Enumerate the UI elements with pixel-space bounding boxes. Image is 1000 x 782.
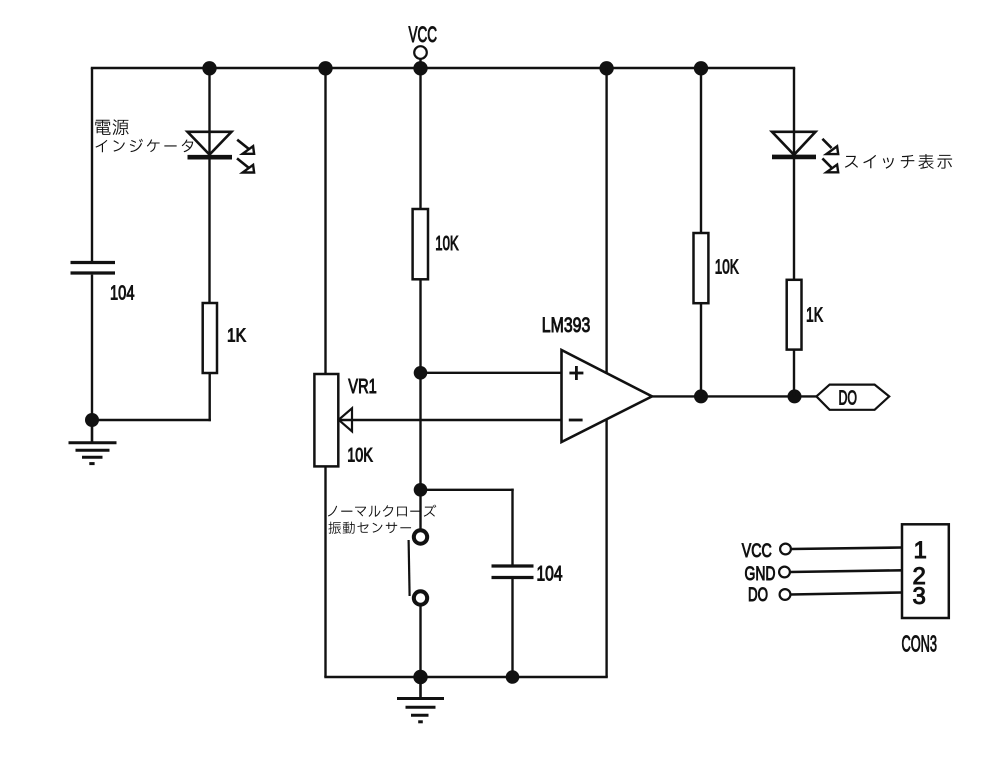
pin DO open terminal	[780, 589, 791, 600]
junction output / right 1K	[788, 389, 802, 403]
net flag DO	[816, 385, 889, 410]
junction left ground node	[85, 413, 99, 427]
svg-text:LM393: LM393	[542, 314, 591, 337]
wire right 10K branch	[700, 68, 702, 396]
wire C2 to ground rail	[511, 579, 513, 677]
LED D1 power indicator	[188, 132, 233, 157]
wire ground node to R2 bottom	[92, 373, 211, 421]
resistor R5 1K (LED2)	[787, 280, 802, 350]
resistor R4 10K (pull-up)	[694, 233, 709, 303]
svg-text:DO: DO	[748, 585, 768, 606]
junction output / right 10K	[694, 389, 708, 403]
svg-text:10K: 10K	[435, 232, 459, 255]
capacitor C1	[71, 263, 116, 274]
VR1 wiper arrow and wire to minus input	[339, 408, 562, 431]
svg-text:VR1: VR1	[348, 375, 377, 398]
junction ground rail / sensor	[413, 670, 427, 684]
LED D1 light arrow 2	[237, 158, 254, 172]
svg-text:CON3: CON3	[902, 631, 938, 657]
junction top rail / VR1 branch	[318, 61, 332, 75]
op-amp U1 LM393	[562, 350, 653, 442]
capacitor C2	[492, 566, 534, 578]
wire GND to pin 2	[790, 570, 902, 572]
power symbol VCC	[409, 22, 438, 68]
wire right LED branch	[793, 68, 795, 396]
wire VCC to pin 1	[791, 548, 902, 550]
label ノーマルクローズ (normally closed)	[328, 505, 436, 517]
wire bottom ground rail	[324, 676, 608, 678]
potentiometer VR1 body	[314, 374, 338, 466]
wire LED D1 branch	[208, 68, 210, 303]
junction top rail / comparator supply branch	[599, 61, 613, 75]
svg-text:VCC: VCC	[409, 22, 438, 47]
svg-text:3: 3	[913, 583, 926, 610]
vibration sensor SW1 spring contact	[409, 540, 410, 596]
svg-text:1K: 1K	[806, 304, 823, 327]
svg-text:104: 104	[537, 563, 563, 586]
junction top rail / left LED branch	[202, 61, 216, 75]
svg-text:1K: 1K	[227, 325, 247, 346]
vibration sensor SW1 top contact	[414, 530, 427, 543]
pin VCC open terminal	[780, 544, 791, 555]
LED D2 light arrow 2	[822, 158, 838, 172]
LED D2 switch indicator	[772, 132, 816, 157]
wire sensor bottom to ground rail	[419, 607, 421, 678]
wire comparator output	[652, 395, 816, 397]
pin GND open terminal	[779, 567, 790, 578]
op-amp plus input marking	[569, 366, 583, 380]
wire C1 to ground node	[91, 275, 93, 420]
junction top rail / right 10K branch	[694, 61, 708, 75]
junction top rail / VCC divider branch	[413, 61, 427, 75]
label 振動センサー (vibration sensor)	[328, 522, 411, 534]
wire top VCC rail	[91, 67, 795, 69]
LED D1 light arrow 1	[237, 140, 254, 154]
svg-text:104: 104	[110, 282, 135, 305]
op-amp minus input marking	[569, 419, 583, 422]
vibration sensor SW1 bottom contact	[414, 591, 427, 604]
wire VR1 bottom to ground rail	[324, 466, 326, 677]
svg-text:1: 1	[914, 537, 927, 564]
wire plus input	[421, 372, 562, 374]
svg-text:DO: DO	[839, 388, 858, 410]
label インジケータ (indicator)	[96, 139, 194, 153]
LED D2 light arrow 1	[822, 139, 838, 154]
resistor R3 10K (divider top)	[413, 209, 428, 279]
junction ground rail / C2	[506, 670, 520, 684]
label スイッチ表示 (switch indicator)	[845, 154, 952, 169]
ground GND1	[69, 420, 117, 464]
wire comparator supply column	[605, 68, 607, 677]
junction divider / sensor top	[414, 483, 428, 497]
ground GND2	[397, 677, 444, 722]
connector CON3 body	[902, 524, 949, 618]
resistor R2 1K	[203, 303, 217, 373]
wire sensor node to C2	[421, 489, 514, 565]
svg-text:10K: 10K	[347, 445, 373, 467]
wire DO to pin 3	[791, 593, 903, 595]
svg-text:GND: GND	[745, 563, 776, 585]
svg-text:VCC: VCC	[742, 540, 772, 562]
wire center divider branch	[419, 68, 421, 529]
junction divider / plus input	[414, 366, 428, 380]
svg-text:10K: 10K	[715, 255, 739, 278]
wire VR1 branch top	[324, 68, 326, 374]
wire left branch down to C1	[91, 68, 93, 261]
label 電源 (power)	[95, 119, 128, 135]
